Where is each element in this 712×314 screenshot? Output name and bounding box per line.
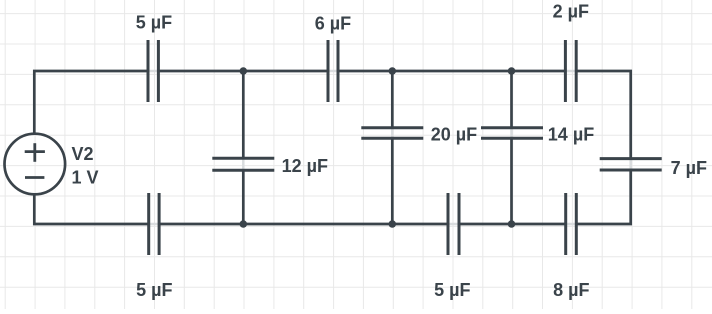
wire: left lead up from source to top rail, top rail segment 1 [34,71,148,134]
wire: branch 20uF upper lead [391,71,394,128]
wire ghost in C gap 5uF top [148,70,158,73]
wire: top rail segment 2 (between C 5uF and C 6uF) [158,70,328,73]
wire: right wire lower and bottom rail segment 4 [576,170,630,224]
junction dot bottom rail / 20uF branch [389,220,397,228]
wire: branch 12uF lower lead [242,170,245,224]
svg-text:1 V: 1 V [72,168,99,188]
wire ghost in C gap 2uF [565,70,576,73]
capacitor 5 uF (bottom middle) [448,193,459,255]
svg-text:20 µF: 20 µF [431,124,477,144]
capacitor 20 uF (vertical branch 2) [361,128,423,138]
wire ghost in C gap 6uF [328,70,338,73]
wire ghost in C gap 8uF [566,223,577,226]
wire ghost in C gap 12uF [242,158,245,170]
svg-text:14 µF: 14 µF [548,124,594,144]
wire ghost in C gap 14uF [510,128,513,138]
svg-text:6 µF: 6 µF [315,13,351,33]
junction dot bottom rail / 12uF branch [240,220,248,228]
capacitor 5 uF (bottom left) [149,193,159,255]
capacitor 5 uF (top left) [148,40,158,102]
capacitor 6 uF (top middle) [328,40,338,102]
capacitor 8 uF (bottom right) [566,193,577,255]
junction dot top rail / 14uF branch [508,67,516,75]
wire: bottom rail segment 3 (between C 8uF and C 5uF) [459,223,566,226]
capacitor 7 uF (right side) [600,159,662,170]
wire ghost in C gap 5uF bottom left [149,223,159,226]
wire: bottom rail segment 1 and left lead down from source [34,194,148,224]
wire: branch 14uF lower lead [510,138,513,224]
wire: top rail segment 4 and right wire upper [576,71,631,159]
svg-text:12 µF: 12 µF [282,156,328,176]
svg-text:V2: V2 [72,144,94,164]
voltage source V2 1 V [5,134,66,195]
svg-text:2 µF: 2 µF [553,2,589,22]
wire: branch 14uF upper lead [510,71,513,128]
wire ghost in C gap 7uF [629,159,632,170]
svg-text:7 µF: 7 µF [671,158,707,178]
junction dot top rail / 20uF branch [389,67,397,75]
capacitor 14 uF (vertical branch 3) [481,128,543,138]
svg-text:5 µF: 5 µF [136,280,172,300]
wire: branch 12uF upper lead [242,71,245,158]
wire: top rail segment 3 (between C 6uF and C 2uF) [338,70,565,73]
junction dot bottom rail / 14uF branch [508,220,516,228]
wire ghost in C gap 20uF [391,128,394,138]
capacitor 12 uF (vertical branch 1) [212,158,274,170]
wire ghost in C gap 5uF bottom middle [448,223,459,226]
capacitor 2 uF (top right) [565,40,576,102]
wire: bottom rail segment 2 (between C 5uF and C 5uF) [159,223,448,226]
svg-text:5 µF: 5 µF [136,13,172,33]
wire: branch 20uF lower lead [391,138,394,224]
svg-text:8 µF: 8 µF [553,280,589,300]
junction dot top rail / 12uF branch [240,67,248,75]
svg-text:5 µF: 5 µF [434,280,470,300]
